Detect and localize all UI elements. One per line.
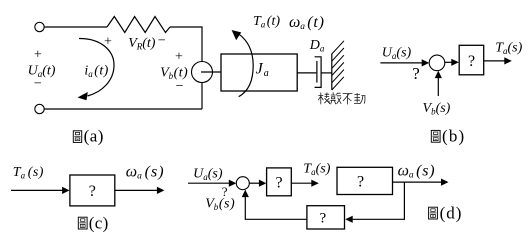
svg-text:+: + <box>34 48 42 63</box>
arrowhead feedback-up d <box>242 190 249 198</box>
svg-text:Vb(s): Vb(s) <box>205 197 235 213</box>
arrowhead of rotation arrow T_a <box>232 30 242 40</box>
wire shaft link <box>201 71 221 73</box>
summing junction d <box>236 177 249 190</box>
wire top <box>44 26 107 28</box>
wire feedback left-up d <box>245 197 307 220</box>
label CJK bu (not) <box>343 94 353 105</box>
arrowhead of current loop i_a <box>78 92 88 100</box>
wire feedback down-left d <box>352 182 404 219</box>
resistor R (V_R) <box>107 17 170 33</box>
block box c <box>70 175 115 206</box>
current loop arrow i_a <box>79 38 114 96</box>
label CJK tu (figure) b <box>431 130 440 142</box>
svg-text:Ua(s): Ua(s) <box>193 167 223 183</box>
block box b <box>459 45 484 75</box>
svg-text:Ta(s): Ta(s) <box>495 41 522 57</box>
svg-text:Ta(t): Ta(t) <box>253 14 280 30</box>
wire V_b input b <box>437 78 439 97</box>
label CJK tu (figure) d <box>429 207 438 219</box>
damper link to wall <box>321 72 332 74</box>
wire output d <box>393 181 443 183</box>
arrowhead output d <box>441 179 449 186</box>
wall hatching <box>332 41 344 90</box>
label CJK ji (machine) <box>318 93 329 105</box>
svg-text:(b): (b) <box>442 127 465 146</box>
svg-text:−: − <box>176 79 184 94</box>
arrowhead V_b b <box>435 71 442 79</box>
svg-text:?: ? <box>89 183 96 200</box>
label CJK tu (figure) a <box>73 131 81 143</box>
wire top-right <box>170 27 202 62</box>
arrowhead input b <box>422 59 430 66</box>
svg-text:−: − <box>158 33 166 48</box>
source V_b (motor back-emf) <box>192 62 213 83</box>
fixed wall <box>331 54 333 90</box>
svg-text:?: ? <box>357 174 364 191</box>
rotation arrow arc T_a <box>239 34 254 97</box>
summing junction b <box>429 55 445 71</box>
svg-text:ωa(t): ωa(t) <box>289 14 325 32</box>
arrowhead box1-out d <box>311 180 319 187</box>
svg-text:?: ? <box>275 175 282 192</box>
inertia box J_a <box>221 54 297 91</box>
block box d2 <box>337 167 393 194</box>
wire output b <box>484 60 505 62</box>
svg-text:Vb(s): Vb(s) <box>423 101 451 117</box>
svg-text:VR(t): VR(t) <box>128 36 156 52</box>
arrowhead output b <box>504 57 512 64</box>
arrowhead input c <box>62 187 70 194</box>
svg-text:+: + <box>104 34 112 49</box>
wire input c <box>11 189 64 191</box>
terminal bottom-left <box>35 104 44 113</box>
arrowhead feedback-into-box3 d <box>345 216 353 223</box>
svg-text:?: ? <box>319 210 326 226</box>
wire right-down <box>201 83 203 110</box>
arrowhead sum-to-box1 d <box>259 180 267 187</box>
label CJK ke (shell) <box>330 92 341 104</box>
svg-text:ia(t): ia(t) <box>84 63 108 79</box>
arrowhead input d <box>229 180 237 187</box>
wire input b <box>380 62 423 64</box>
svg-text:(c): (c) <box>89 214 109 233</box>
svg-text:Vb(t): Vb(t) <box>160 65 188 81</box>
svg-text:(d): (d) <box>440 204 463 223</box>
svg-text:Ua(s): Ua(s) <box>382 45 412 61</box>
arrowhead output c <box>157 187 165 194</box>
wire bottom <box>44 108 202 110</box>
svg-text:Ta(s): Ta(s) <box>303 162 330 178</box>
svg-text:−: − <box>34 77 42 92</box>
wire output c <box>115 189 158 191</box>
svg-text:?: ? <box>412 64 420 83</box>
label CJK dong (move) <box>354 93 365 104</box>
svg-text:ωa(s): ωa(s) <box>126 163 165 181</box>
terminal top-left <box>35 22 44 31</box>
wire sum to box b <box>445 61 452 63</box>
label CJK tu (figure) c <box>78 217 87 229</box>
block box d3 <box>307 206 345 229</box>
shaft to damper <box>297 72 316 74</box>
arrowhead sum-to-box b <box>451 59 459 66</box>
block box d1 <box>267 168 292 196</box>
svg-text:ωa(s): ωa(s) <box>398 162 436 180</box>
damper D_a cylinder <box>315 57 322 88</box>
svg-text:+: + <box>175 50 183 65</box>
svg-text:(a): (a) <box>84 127 104 146</box>
wire input d <box>188 182 230 184</box>
svg-text:Ta(s): Ta(s) <box>13 165 44 181</box>
wire box1 out d <box>291 182 312 184</box>
damper D_a piston <box>316 61 318 83</box>
svg-text:?: ? <box>468 53 475 70</box>
wire sum to box1 d <box>249 182 260 184</box>
